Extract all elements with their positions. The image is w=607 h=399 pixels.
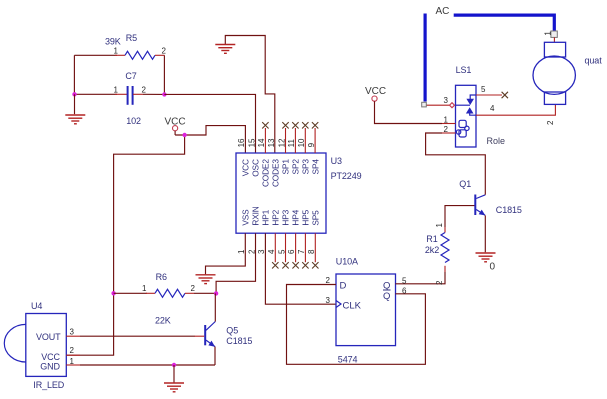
ground (below U3 pin1) xyxy=(196,275,216,284)
pin 14 no-connect stub xyxy=(262,122,268,153)
svg-text:D: D xyxy=(340,280,347,291)
svg-text:Role: Role xyxy=(487,136,506,146)
pin 8 SP5 label xyxy=(307,210,320,254)
op-amp U4 IR_LED receiver body xyxy=(4,301,66,390)
svg-text:SP1: SP1 xyxy=(281,159,291,175)
ground (below U4 GND wire) xyxy=(164,365,184,392)
AC thick line (left branch to relay) xyxy=(424,14,427,102)
svg-text:9: 9 xyxy=(307,142,316,147)
svg-text:2: 2 xyxy=(326,276,331,285)
svg-text:2: 2 xyxy=(191,284,196,293)
capacitor C7 xyxy=(74,71,164,126)
svg-text:R6: R6 xyxy=(156,272,167,282)
svg-text:1: 1 xyxy=(114,85,119,94)
node junction C7 pin2 / OSC net xyxy=(162,92,166,96)
svg-text:1: 1 xyxy=(142,284,147,293)
svg-text:1: 1 xyxy=(444,116,449,125)
svg-text:CODE3: CODE3 xyxy=(271,159,281,187)
svg-text:VCC: VCC xyxy=(241,159,251,176)
power VCC (left) xyxy=(165,116,186,135)
connector square (AC line to relay) xyxy=(422,102,427,107)
svg-text:CODE2: CODE2 xyxy=(261,159,271,187)
transistor Q5 xyxy=(194,322,252,347)
node junction R6 pin2 / RXIN / Q5 collector xyxy=(214,291,218,295)
pin 2 RXIN label xyxy=(247,206,260,254)
pin 2 D of U10A, feedback wire from pin 6 xyxy=(287,276,426,364)
svg-text:LS1: LS1 xyxy=(456,65,472,75)
svg-text:PT2249: PT2249 xyxy=(331,171,362,181)
resistor R6 xyxy=(114,272,217,325)
pin 4 of relay, wire to motor xyxy=(476,104,555,115)
pin 11 no-connect stub xyxy=(292,122,298,153)
svg-text:IR_LED: IR_LED xyxy=(33,380,65,390)
pin 5 Q of U10A, wire to R1 xyxy=(396,272,446,286)
pin 1 of relay xyxy=(442,116,456,125)
svg-text:C7: C7 xyxy=(125,71,136,81)
wire OSC net to U3 pin15 xyxy=(164,94,255,153)
ground (below R5/C7 junction) xyxy=(65,94,85,124)
wire Q5 emitter down to GND rail xyxy=(214,347,216,365)
svg-text:SP5: SP5 xyxy=(310,210,320,226)
svg-text:VCC: VCC xyxy=(365,86,386,97)
svg-text:2: 2 xyxy=(435,280,444,285)
svg-text:102: 102 xyxy=(126,116,141,126)
svg-text:5: 5 xyxy=(481,85,486,94)
svg-text:quat: quat xyxy=(585,55,603,65)
svg-text:HP3: HP3 xyxy=(281,209,291,225)
relay LS1 coil xyxy=(456,120,469,137)
pin 5 of relay with no-connect X xyxy=(476,85,508,98)
node junction R5/C7/ground xyxy=(72,92,76,96)
AC thick line (top branch to motor) xyxy=(454,15,555,31)
svg-text:U10A: U10A xyxy=(336,257,358,267)
svg-text:C1815: C1815 xyxy=(226,336,252,346)
pin 4 no-connect stub (bottom) xyxy=(272,233,278,268)
svg-text:U3: U3 xyxy=(331,156,342,166)
pin 12 SP1 label xyxy=(277,138,290,174)
motor quat xyxy=(533,37,602,104)
svg-text:1: 1 xyxy=(544,31,553,36)
svg-text:39K: 39K xyxy=(105,37,121,47)
pin 1 GND of U4, wire to ground and Q5 emitter xyxy=(66,357,215,366)
transistor Q1 xyxy=(459,179,522,216)
node junction GND wire / ground stem xyxy=(172,363,176,367)
svg-text:HP4: HP4 xyxy=(291,209,301,225)
pin 3 of relay with diamond, wire to AC line xyxy=(426,96,454,108)
svg-text:6: 6 xyxy=(287,249,296,254)
pin 10 no-connect stub xyxy=(302,122,308,153)
resistor R5 xyxy=(105,33,167,59)
svg-text:2k2: 2k2 xyxy=(425,245,439,255)
svg-text:13: 13 xyxy=(267,138,276,147)
svg-text:2: 2 xyxy=(70,346,75,355)
svg-text:12: 12 xyxy=(277,138,286,147)
svg-text:U4: U4 xyxy=(31,301,42,311)
wire Q1 base to R1 xyxy=(445,206,475,227)
pin 5 HP3 label xyxy=(277,209,290,254)
svg-text:Q5: Q5 xyxy=(226,325,238,335)
relay LS1 body xyxy=(456,65,506,147)
svg-text:2: 2 xyxy=(142,85,147,94)
pin 13 CODE3 label xyxy=(267,138,280,187)
wire R5 pin1 to C7 junction (left vertical) xyxy=(74,55,117,94)
svg-text:HP1: HP1 xyxy=(261,209,271,225)
svg-text:SP4: SP4 xyxy=(310,159,320,175)
power VCC (right) xyxy=(365,86,386,101)
svg-text:4: 4 xyxy=(490,104,495,113)
op-amp U3 PT2249 body xyxy=(236,153,362,233)
svg-text:HP2: HP2 xyxy=(271,209,281,225)
svg-text:2: 2 xyxy=(444,125,449,134)
pin 3 HP1 label xyxy=(257,209,270,254)
svg-text:3: 3 xyxy=(326,296,331,305)
svg-text:VSS: VSS xyxy=(241,209,251,226)
svg-text:16: 16 xyxy=(237,138,246,147)
svg-text:C1815: C1815 xyxy=(496,205,522,215)
svg-text:R5: R5 xyxy=(126,33,137,43)
wire VCC net to U3 pin16 xyxy=(175,126,245,153)
wire VCC to relay pin1 xyxy=(375,101,443,123)
svg-text:RXIN: RXIN xyxy=(251,206,261,225)
svg-text:2: 2 xyxy=(162,47,167,56)
svg-text:1: 1 xyxy=(435,223,444,228)
svg-text:VOUT: VOUT xyxy=(36,332,61,342)
svg-text:15: 15 xyxy=(247,138,256,147)
svg-text:HP5: HP5 xyxy=(301,209,311,225)
wire VCC net down-left to U4 VCC pin xyxy=(66,135,184,355)
pin 6 no-connect stub (bottom) xyxy=(292,233,298,268)
wire U3 pin2 RXIN to R6/Q5 node xyxy=(216,233,255,293)
relay LS1 contact arm (common, pin 3) xyxy=(456,95,477,115)
svg-text:2: 2 xyxy=(546,120,555,125)
pin 15 OSC label xyxy=(247,138,260,177)
svg-text:OSC: OSC xyxy=(251,159,261,177)
pin 2 VCC of U4 xyxy=(66,346,80,355)
wire U3 pin3 HP1 to U10A CLK xyxy=(265,233,336,304)
wire Q1 emitter to ground xyxy=(484,215,486,252)
svg-text:1: 1 xyxy=(114,47,119,56)
pin 2 of relay, wire to Q1 collector xyxy=(426,125,486,195)
pin 14 CODE2 label xyxy=(257,138,270,187)
pin 3 VOUT of U4, wire to Q5 base xyxy=(66,327,194,336)
svg-text:3: 3 xyxy=(70,327,75,336)
pin 6 HP4 label xyxy=(287,209,300,254)
op-amp U10A 5474 flip-flop body xyxy=(336,257,396,365)
wire R5 pin2 down to C7 pin2 xyxy=(163,55,165,94)
resistor R1 xyxy=(425,223,449,286)
svg-text:1: 1 xyxy=(70,357,75,366)
svg-text:Q1: Q1 xyxy=(459,179,471,189)
node junction at VCC symbol xyxy=(182,133,186,137)
svg-text:8: 8 xyxy=(307,249,316,254)
ground 0 (below Q1 emitter) xyxy=(476,253,496,272)
svg-text:7: 7 xyxy=(297,249,306,254)
pin 9 no-connect stub xyxy=(312,122,318,153)
svg-text:22K: 22K xyxy=(155,315,171,325)
svg-text:5: 5 xyxy=(277,249,286,254)
pin 16 VCC label xyxy=(237,138,250,176)
pin 1 VSS label xyxy=(237,209,250,254)
pin 9 SP4 label xyxy=(307,142,320,174)
wire U3 pin1 to ground xyxy=(206,233,246,274)
node junction R6 pin1 / VCC rail xyxy=(111,291,115,295)
pin 8 no-connect stub (bottom) xyxy=(312,233,318,268)
svg-text:6: 6 xyxy=(402,287,407,296)
ground (top middle, to U3 pin13) xyxy=(215,36,274,154)
svg-text:0: 0 xyxy=(490,261,496,272)
wire Q5 collector up to RXIN node xyxy=(214,293,216,321)
svg-text:CLK: CLK xyxy=(343,300,362,311)
svg-text:3: 3 xyxy=(444,96,449,105)
pin 4 HP2 label xyxy=(267,209,280,254)
pin 10 SP3 label xyxy=(297,138,310,174)
svg-text:GND: GND xyxy=(40,362,60,372)
svg-text:VCC: VCC xyxy=(41,352,60,362)
svg-text:R1: R1 xyxy=(426,234,437,244)
svg-text:5474: 5474 xyxy=(338,355,358,365)
svg-text:5: 5 xyxy=(402,277,407,286)
svg-text:AC: AC xyxy=(436,6,450,17)
pin 12 no-connect stub xyxy=(282,122,288,153)
svg-text:Q: Q xyxy=(383,291,390,302)
svg-text:SP2: SP2 xyxy=(291,159,301,175)
pin 7 HP5 label xyxy=(297,209,310,254)
pin 11 SP2 label xyxy=(287,139,300,175)
pin 5 no-connect stub (bottom) xyxy=(282,233,288,268)
svg-text:SP3: SP3 xyxy=(301,159,311,175)
connector square (AC line to motor) xyxy=(551,31,557,37)
pin 7 no-connect stub (bottom) xyxy=(302,233,308,268)
